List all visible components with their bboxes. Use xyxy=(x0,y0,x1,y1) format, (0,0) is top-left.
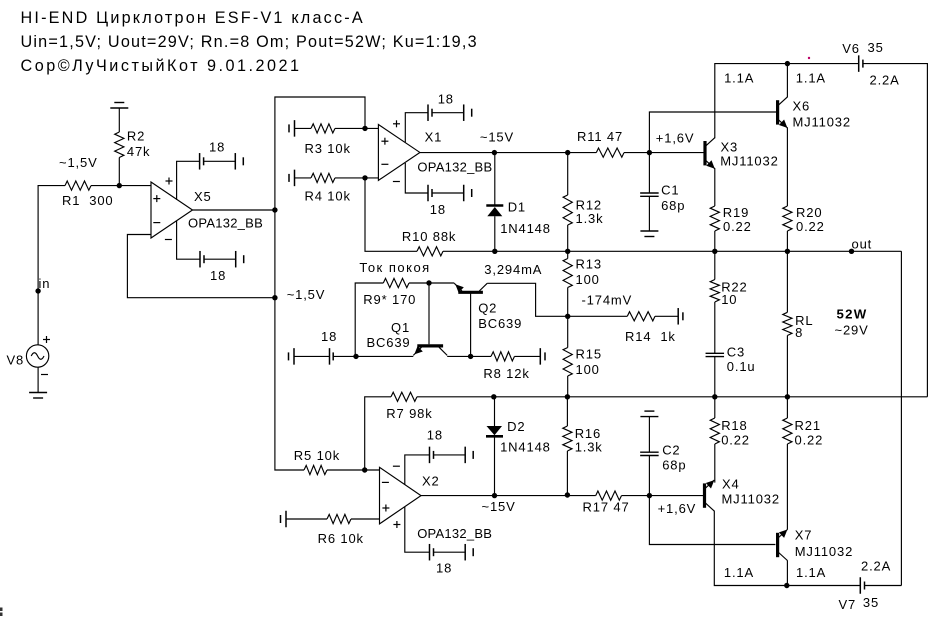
label 18 X5 top xyxy=(209,139,225,154)
svg-text:1N4148: 1N4148 xyxy=(500,440,551,455)
svg-text:R18: R18 xyxy=(721,418,747,433)
label 1N4148 D2 xyxy=(500,440,551,455)
label R9* 170 xyxy=(363,292,416,307)
transistor X7 xyxy=(776,533,779,557)
battery V7 xyxy=(859,577,861,594)
resistor R12 xyxy=(563,195,572,225)
X2 input - label xyxy=(382,481,389,483)
battery stub R14 end xyxy=(677,308,679,325)
battery stub R4 input xyxy=(294,170,296,187)
svg-text:OPA132_BB: OPA132_BB xyxy=(417,159,492,174)
label 18 X5 bottom xyxy=(210,268,226,283)
battery 18 X2 top xyxy=(429,447,431,464)
node R1/R2/X5 junction xyxy=(117,183,122,188)
node X2 output xyxy=(492,493,497,498)
svg-text:R6 10k: R6 10k xyxy=(318,531,364,546)
label R13 100 xyxy=(576,257,602,288)
label R22 10 xyxy=(721,280,747,308)
wire X3 collector to top rail xyxy=(715,64,788,139)
node R3/X1+ junction xyxy=(362,126,367,131)
wire R18 to X4 emitter xyxy=(714,444,716,483)
svg-text:0.22: 0.22 xyxy=(721,433,750,448)
X5 V+ pin wire xyxy=(177,161,200,200)
resistor R1 xyxy=(65,181,91,190)
label R15 100 xyxy=(576,347,602,378)
stray red dot xyxy=(808,57,810,59)
wire Q1 base xyxy=(428,283,430,344)
wire R13 top xyxy=(567,251,569,258)
label +1,6V top xyxy=(656,131,695,146)
svg-text:R21: R21 xyxy=(795,418,821,433)
label R8 12k xyxy=(483,366,529,381)
ground below C1 xyxy=(640,230,658,232)
svg-text:D1: D1 xyxy=(508,200,526,215)
wire R16 bottom xyxy=(566,451,568,495)
wire R4 node down to R10 rail xyxy=(365,178,417,251)
node +1,6V top xyxy=(647,150,652,155)
svg-text:X2: X2 xyxy=(422,474,440,489)
transistor X4 xyxy=(703,483,706,507)
wire R21 to X7 emitter xyxy=(786,444,788,530)
svg-text:35: 35 xyxy=(863,595,879,610)
label ~15V X1 xyxy=(480,129,514,144)
label 3,294mA xyxy=(484,262,542,277)
svg-text:MJ11032: MJ11032 xyxy=(720,154,778,169)
battery 18 Q1 emitter rail xyxy=(293,348,295,365)
wire R1 to X5 + input xyxy=(91,185,151,187)
X1 input - label xyxy=(381,163,388,165)
node R16/R17 on X2 rail xyxy=(565,492,570,497)
wire R8 to stub xyxy=(515,355,541,357)
X5 output wire xyxy=(193,209,275,211)
svg-text:BC639: BC639 xyxy=(367,335,411,350)
battery stub R3 input xyxy=(294,120,296,136)
svg-text:R2: R2 xyxy=(127,129,145,144)
resistor R16 xyxy=(563,426,572,451)
wire ground to C2 xyxy=(648,417,650,453)
wire +1,6V down to X7 base xyxy=(649,496,775,545)
wire out rail down to V7 rail xyxy=(900,251,902,585)
svg-text:R7 98k: R7 98k xyxy=(386,406,432,421)
svg-text:68p: 68p xyxy=(662,458,686,473)
label R17 47 xyxy=(583,500,630,515)
transistor Q2 xyxy=(454,283,487,356)
wire X5 output up to X1 + input xyxy=(275,97,365,210)
label R16 1.3k xyxy=(575,426,603,455)
svg-text:0.22: 0.22 xyxy=(795,433,824,448)
svg-text:18: 18 xyxy=(438,92,454,107)
wire X6 collector to top rail xyxy=(786,64,788,98)
label R6 10k xyxy=(318,531,364,546)
svg-text:~15V: ~15V xyxy=(480,129,514,144)
svg-text:R3 10k: R3 10k xyxy=(305,141,351,156)
svg-text:V7: V7 xyxy=(839,597,857,612)
X5 input + label xyxy=(153,198,160,200)
wire R19 to out rail xyxy=(714,231,716,251)
diode D1 xyxy=(486,206,503,217)
svg-text:V8: V8 xyxy=(7,352,25,367)
svg-text:X6: X6 xyxy=(793,99,811,114)
label X6 xyxy=(793,99,811,114)
svg-text:68p: 68p xyxy=(661,198,685,213)
label R21 0.22 xyxy=(795,418,824,448)
label X5 xyxy=(194,189,212,204)
wire R4 to X1 - input xyxy=(335,177,378,179)
svg-text:X5: X5 xyxy=(194,189,212,204)
battery 18 X5 bottom xyxy=(199,251,201,268)
wire R9 left leg xyxy=(355,283,383,356)
svg-text:R10 88k: R10 88k xyxy=(402,229,456,244)
resistor R4 xyxy=(311,173,335,182)
label V8 xyxy=(7,352,25,367)
svg-text:52W: 52W xyxy=(837,307,868,322)
resistor R8 xyxy=(491,352,515,361)
wire R17 to +1,6V bottom xyxy=(622,495,704,497)
diode D2 xyxy=(486,426,503,436)
wire +1,6V up to X6 base xyxy=(649,112,776,153)
label 18 X1 bottom xyxy=(430,202,446,217)
wire V6 to right edge down to center rail xyxy=(863,64,928,397)
wire D1 to rail xyxy=(494,216,496,251)
wire D2 to X2 output rail xyxy=(494,436,496,495)
svg-text:OPA132_BB: OPA132_BB xyxy=(417,526,492,541)
X2 power + label xyxy=(393,524,400,526)
label X1 xyxy=(425,129,443,144)
label R14 1k xyxy=(625,329,676,344)
transistor X3 xyxy=(703,141,706,165)
svg-text:V6: V6 xyxy=(842,41,860,56)
label 18 X2 bottom xyxy=(436,561,452,576)
label V7 35 xyxy=(839,595,880,612)
X1 V+ pin wire xyxy=(405,113,428,143)
label 1.1A top right xyxy=(796,70,826,85)
svg-text:OPA132_BB: OPA132_BB xyxy=(188,216,263,231)
label D1 xyxy=(508,200,526,215)
label Q1 xyxy=(391,320,410,335)
node D2 top on center rail xyxy=(491,394,496,399)
X2 input + label xyxy=(382,507,389,509)
X5 V- pin wire xyxy=(177,221,200,259)
label X2 xyxy=(422,474,440,489)
svg-text:~29V: ~29V xyxy=(835,323,869,338)
svg-text:18: 18 xyxy=(321,329,337,344)
wire R6 to X2 + input xyxy=(351,518,380,520)
wire C3 to center rail xyxy=(714,357,716,397)
op-amp X2 triangle xyxy=(380,467,422,524)
edge artifact bottom-left xyxy=(0,608,3,612)
label -174mV xyxy=(582,293,633,308)
svg-text:18: 18 xyxy=(210,268,226,283)
svg-text:~1,5V: ~1,5V xyxy=(287,287,326,302)
wire R14 to stub xyxy=(655,315,678,317)
svg-text:C3: C3 xyxy=(727,345,745,360)
node X5 output xyxy=(272,207,277,212)
svg-text:~15V: ~15V xyxy=(482,499,516,514)
svg-text:HI-END Цирклотрон ESF-V1 класс: HI-END Цирклотрон ESF-V1 класс-А xyxy=(21,9,365,27)
svg-text:Q2: Q2 xyxy=(478,301,497,316)
svg-text:18: 18 xyxy=(436,561,452,576)
wire RL to center rail xyxy=(786,336,788,397)
svg-text:D2: D2 xyxy=(507,419,525,434)
node X1 output ~15V xyxy=(492,150,497,155)
node R5/X2-/R7 junction xyxy=(362,467,367,472)
svg-text:-174mV: -174mV xyxy=(582,293,633,308)
label R10 88k xyxy=(402,229,456,244)
resistor R15 xyxy=(563,348,572,377)
label R11 47 xyxy=(577,129,623,144)
resistor R17 xyxy=(596,491,622,500)
label 1.1A top left xyxy=(724,70,754,85)
svg-text:X3: X3 xyxy=(721,139,739,154)
svg-text:X1: X1 xyxy=(425,129,443,144)
top rail V6 left segment xyxy=(788,63,859,65)
svg-text:1.1A: 1.1A xyxy=(724,565,754,580)
label MJ11032 X3 xyxy=(720,154,778,169)
svg-text:1.1A: 1.1A xyxy=(796,565,826,580)
svg-text:1.3k: 1.3k xyxy=(575,440,603,455)
wire X6 emitter to R20 xyxy=(786,127,788,206)
wire V7 to right riser xyxy=(865,585,902,587)
label 1.1A bottom left xyxy=(724,565,754,580)
load resistor RL top wire xyxy=(786,251,788,312)
X2 power - label xyxy=(393,465,400,467)
node +1,6V bottom xyxy=(647,493,652,498)
svg-text:100: 100 xyxy=(576,272,600,287)
wire X5 output down to R5 xyxy=(275,210,304,470)
label X7 xyxy=(795,528,813,543)
wire R12 bottom xyxy=(567,225,569,251)
node Q2 base junction xyxy=(468,354,473,359)
label R5 10k xyxy=(294,448,340,463)
label BC639 Q2 xyxy=(478,316,522,331)
label 18 X1 top xyxy=(438,92,454,107)
label C3 0.1u xyxy=(727,345,756,375)
wire X7 collector to bottom rail xyxy=(786,560,788,585)
wire R15 top xyxy=(567,316,569,347)
X2 V- pin wire xyxy=(405,455,430,485)
svg-text:C2: C2 xyxy=(662,443,680,458)
capacitor C3 xyxy=(706,352,725,354)
svg-text:X7: X7 xyxy=(795,528,813,543)
svg-text:MJ11032: MJ11032 xyxy=(722,492,780,507)
wire R12 top xyxy=(567,153,569,195)
svg-text:R5 10k: R5 10k xyxy=(294,448,340,463)
node X7 collector on V7 rail xyxy=(784,583,789,588)
label MJ11032 X4 xyxy=(722,492,780,507)
node R19 on out rail xyxy=(712,249,717,254)
node out xyxy=(849,249,854,254)
node C3 on center rail xyxy=(712,394,717,399)
wire R9 to Q-node xyxy=(409,282,429,284)
label 18 Q1 battery xyxy=(321,329,337,344)
label ~1,5V feedback xyxy=(287,287,326,302)
transistor Q1 xyxy=(413,346,447,356)
svg-text:8: 8 xyxy=(795,325,803,340)
svg-text:R4 10k: R4 10k xyxy=(305,189,351,204)
label X4 xyxy=(722,476,740,491)
svg-text:R1 300: R1 300 xyxy=(62,193,113,208)
wire stub to R4 xyxy=(295,177,312,179)
label RL 8 xyxy=(795,313,813,340)
node R9/Q1base/Q2emitter xyxy=(426,280,431,285)
wire X3 emitter to R19 xyxy=(714,168,716,206)
label R7 98k xyxy=(386,406,432,421)
label C2 68p xyxy=(662,443,686,473)
resistor R3 xyxy=(311,124,335,133)
wire R16 node to R17 xyxy=(567,495,595,497)
label MJ11032 X7 xyxy=(795,544,853,559)
wire R15 bottom xyxy=(567,376,569,397)
resistor R21 top wire xyxy=(786,397,788,418)
wire R3 to X1 + input xyxy=(335,127,378,129)
svg-text:BC639: BC639 xyxy=(478,316,522,331)
X2 output wire xyxy=(420,495,567,497)
svg-text:R11 47: R11 47 xyxy=(577,129,623,144)
label 1N4148 D1 xyxy=(500,221,551,236)
wire V8 bottom to ground xyxy=(37,367,39,392)
svg-text:R14 1k: R14 1k xyxy=(625,329,676,344)
node R12/R13 on out rail xyxy=(565,249,570,254)
wire R5 to X2 - input xyxy=(327,469,380,471)
battery stub R6 input xyxy=(285,511,287,528)
svg-text:R19: R19 xyxy=(723,205,749,220)
svg-text:2.2A: 2.2A xyxy=(870,73,900,88)
svg-text:18: 18 xyxy=(430,202,446,217)
wire stub to R3 xyxy=(295,127,312,129)
center rail xyxy=(494,396,928,398)
label ~29V xyxy=(835,323,869,338)
X5 feedback wire from - input xyxy=(127,235,275,298)
label ~1,5V input xyxy=(59,155,98,170)
ground below V8 xyxy=(29,392,47,394)
resistor R10 xyxy=(417,247,443,256)
resistor R18 xyxy=(710,418,719,444)
label R18 0.22 xyxy=(721,418,750,448)
label +1,6V bottom xyxy=(658,501,697,516)
svg-text:47k: 47k xyxy=(127,144,151,159)
node X6 collector on rail xyxy=(785,61,790,66)
svg-text:100: 100 xyxy=(576,362,600,377)
battery 18 X5 top xyxy=(199,153,201,170)
svg-text:R13: R13 xyxy=(576,257,602,272)
X5 input - label xyxy=(153,222,160,224)
label R19 0.22 xyxy=(723,205,752,234)
X1 output wire xyxy=(420,152,568,154)
resistor R18 top wire xyxy=(714,397,716,418)
op-amp X5 triangle xyxy=(151,182,193,238)
svg-text:3,294mA: 3,294mA xyxy=(484,262,542,277)
battery 18 X1 bottom xyxy=(427,185,429,202)
node in (dot) xyxy=(35,288,40,293)
resistor R14 xyxy=(627,312,655,321)
resistor R9 xyxy=(383,278,409,287)
X1 power - label xyxy=(393,181,400,183)
ground above R2 xyxy=(110,107,128,109)
svg-text:1N4148: 1N4148 xyxy=(500,221,551,236)
resistor R2 xyxy=(115,132,124,158)
label OPA132_BB X2 xyxy=(417,526,492,541)
X1 power + label xyxy=(393,123,400,125)
wire R2 to node xyxy=(118,158,120,186)
label OPA132_BB X5 xyxy=(188,216,263,231)
bottom rail V7 left segment xyxy=(787,585,861,587)
svg-text:C1: C1 xyxy=(661,183,679,198)
svg-text:Q1: Q1 xyxy=(391,320,410,335)
wire ground to R2 xyxy=(118,108,120,132)
resistor R11 xyxy=(596,148,624,157)
node R4/X1- junction xyxy=(362,175,367,180)
transistor X6 xyxy=(776,100,779,124)
node R9-left on emitter rail xyxy=(353,354,358,359)
label Ток покоя xyxy=(359,260,430,275)
label MJ11032 X6 xyxy=(793,115,851,130)
wire C2 to +1,6V bottom node xyxy=(648,456,650,496)
battery 18 X1 top xyxy=(427,104,429,121)
label R1 300 xyxy=(62,193,113,208)
wire stub to R6 xyxy=(286,518,327,520)
label V6 35 xyxy=(842,40,883,56)
svg-text:out: out xyxy=(852,237,873,252)
label 18 X2 top xyxy=(427,428,443,443)
label BC639 Q1 xyxy=(367,335,411,350)
battery V6 xyxy=(858,55,860,72)
label R4 10k xyxy=(305,189,351,204)
wire R11 to +1,6V node xyxy=(624,152,704,154)
wire R13 to -174mV node xyxy=(567,288,569,317)
label R2 47k xyxy=(127,129,151,160)
wire R7 riser xyxy=(365,397,391,470)
svg-text:Cор©ЛуЧистыйКот 9.01.2021: Cор©ЛуЧистыйКот 9.01.2021 xyxy=(21,57,302,75)
label C1 68p xyxy=(661,183,685,214)
label R12 1.3k xyxy=(576,198,604,227)
label ~15V X2 xyxy=(482,499,516,514)
label OPA132_BB X1 xyxy=(417,159,492,174)
AC source V8 xyxy=(26,336,50,375)
label 52W xyxy=(837,307,868,322)
resistor R13 xyxy=(563,259,572,288)
svg-text:1.1A: 1.1A xyxy=(796,70,826,85)
X1 V- pin wire xyxy=(405,163,428,193)
svg-text:2.2A: 2.2A xyxy=(861,559,891,574)
resistor R6 xyxy=(327,514,351,523)
X5 power + label xyxy=(166,180,173,182)
svg-text:X4: X4 xyxy=(722,476,740,491)
node R11 left / R12 top xyxy=(565,150,570,155)
svg-text:R8 12k: R8 12k xyxy=(483,366,529,381)
resistor R22 xyxy=(710,280,719,303)
wire R16 top xyxy=(566,397,568,426)
svg-text:35: 35 xyxy=(868,40,884,55)
X2 V+ pin wire xyxy=(405,507,430,553)
svg-text:MJ11032: MJ11032 xyxy=(795,544,853,559)
svg-text:MJ11032: MJ11032 xyxy=(793,115,851,130)
label R20 0.22 xyxy=(796,205,825,234)
resistor R7 xyxy=(391,392,417,401)
node -174mV xyxy=(565,314,570,319)
svg-text:R15: R15 xyxy=(576,347,602,362)
node X5 feedback junction xyxy=(272,295,277,300)
label 2.2A top xyxy=(870,73,900,88)
svg-text:R17 47: R17 47 xyxy=(583,500,630,515)
wire X5 line to R5 handled above; R5 resistor xyxy=(304,465,327,474)
svg-text:10: 10 xyxy=(721,292,737,307)
wire X4 collector to bottom rail xyxy=(714,511,787,586)
node R15/R16 on center rail xyxy=(565,394,570,399)
wire in node to R1 xyxy=(38,186,65,291)
op-amp X1 triangle xyxy=(378,125,420,181)
label D2 xyxy=(507,419,525,434)
out rail xyxy=(495,250,902,252)
